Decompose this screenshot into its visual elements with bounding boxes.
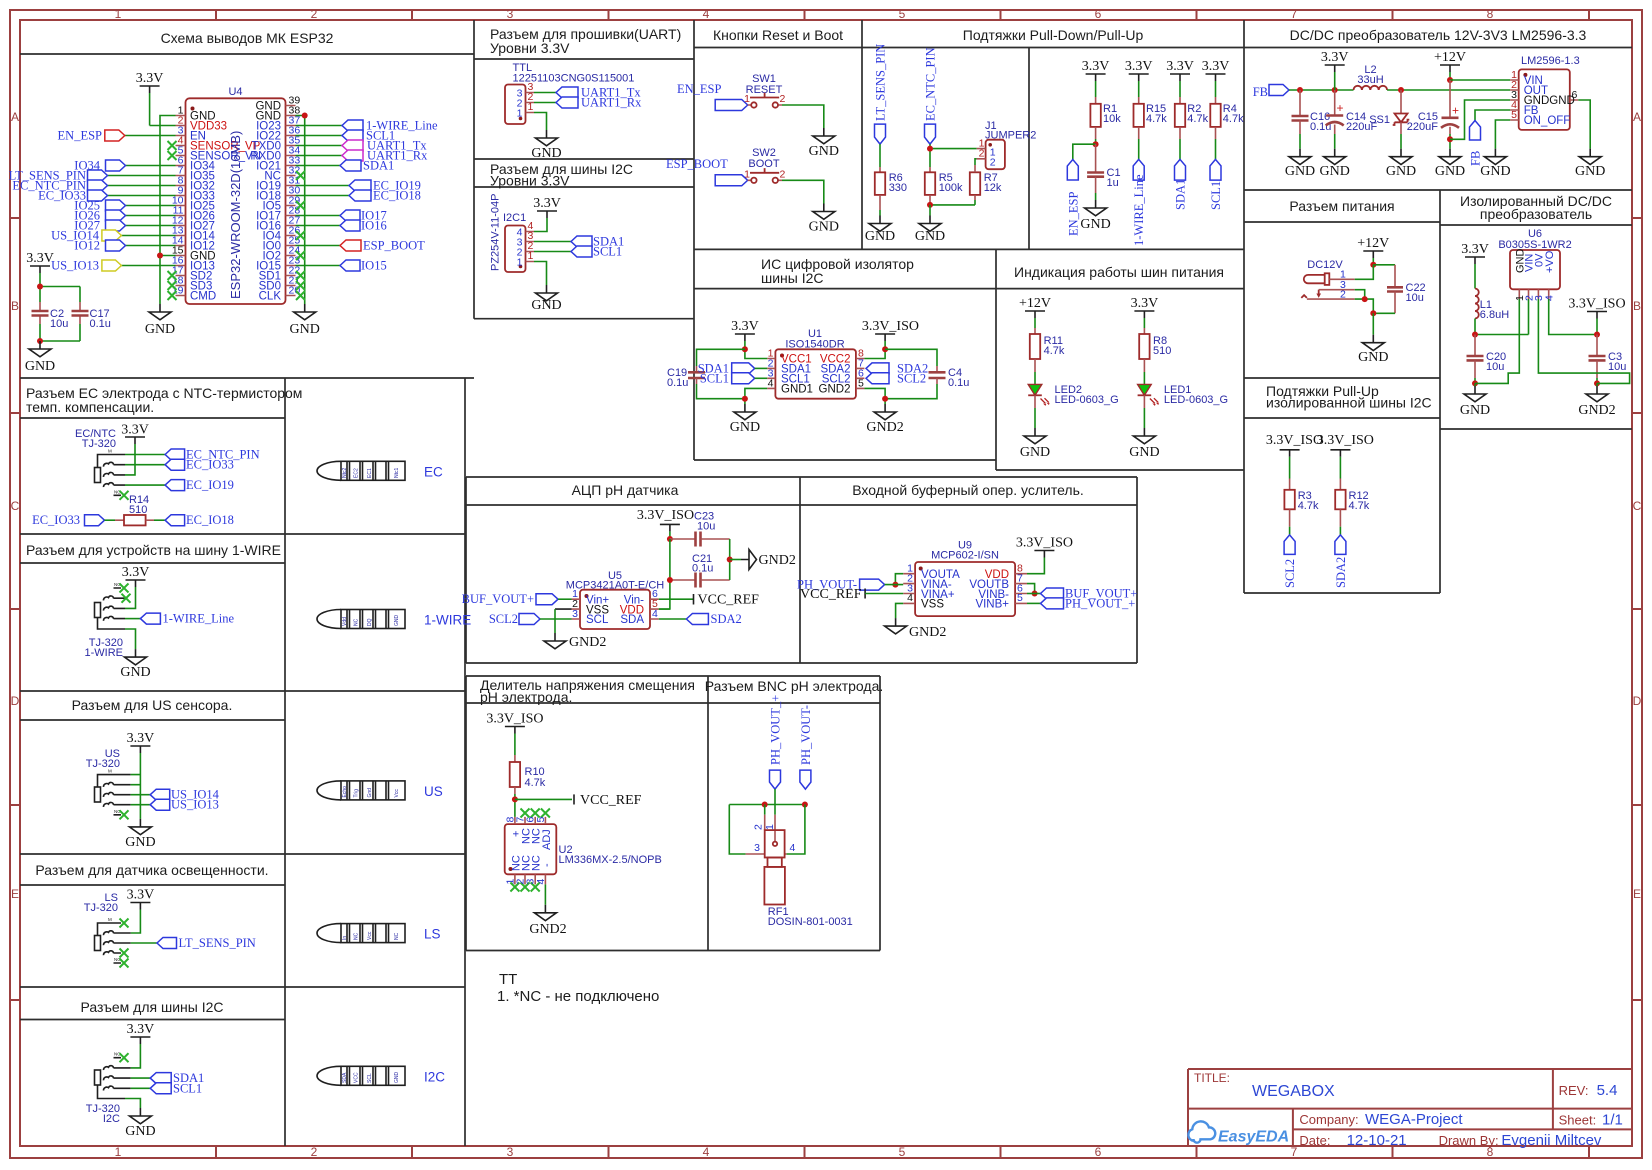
svg-text:SCL2: SCL2 xyxy=(489,612,518,626)
svg-text:ESP32-WROOM-32D(16MB): ESP32-WROOM-32D(16MB) xyxy=(228,131,243,299)
svg-text:DQ: DQ xyxy=(367,618,373,626)
capacitor C15 (polarized) xyxy=(1407,80,1459,149)
svg-text:PZ254V-11-04P: PZ254V-11-04P xyxy=(490,194,502,271)
pin numbers LM2596 xyxy=(1511,69,1577,121)
power flag +12V xyxy=(1434,50,1466,80)
power flag 3.3V (U6 in) xyxy=(1461,242,1489,289)
svg-text:3.3V: 3.3V xyxy=(136,71,164,86)
svg-text:GND: GND xyxy=(1285,164,1315,179)
resistor R3 xyxy=(1284,479,1319,535)
svg-text:IO12: IO12 xyxy=(74,239,100,253)
junction SS1 top xyxy=(1398,87,1404,93)
net flag SDA2 (U1) xyxy=(866,361,928,375)
wire LS row3 to flag xyxy=(131,942,157,944)
svg-text:LM2596-1.3: LM2596-1.3 xyxy=(1521,55,1580,67)
junction C20 bottom xyxy=(1472,380,1478,386)
connector I2C TJ-320 jack xyxy=(95,1052,131,1099)
junction R5 bottom xyxy=(927,202,933,208)
logo EasyEDA cloud xyxy=(1188,1121,1215,1142)
power flag 3.3V_ISO (R3) xyxy=(1266,433,1323,479)
svg-text:PH_VOUT_+: PH_VOUT_+ xyxy=(769,695,783,765)
svg-text:4: 4 xyxy=(907,592,913,604)
svg-text:10u: 10u xyxy=(1608,361,1626,373)
pin names U4 left xyxy=(190,111,261,303)
junction VCC2/C4 xyxy=(882,346,888,352)
svg-text:4.7k: 4.7k xyxy=(1298,500,1319,512)
power flag 3.3V (US) xyxy=(127,731,155,753)
svg-text:Ntc2: Ntc2 xyxy=(342,468,348,479)
net flag PH_VOUT_+ (BNC, vertical) xyxy=(769,695,783,789)
connector DC12V barrel jack xyxy=(1301,259,1354,301)
svg-text:MCP602-I/SN: MCP602-I/SN xyxy=(931,550,999,562)
wire SW2 to GND xyxy=(782,180,824,203)
power flag 3.3V (U1) xyxy=(731,319,759,341)
junction R1/C1/EN_ESP xyxy=(1093,141,1099,147)
svg-text:GND2: GND2 xyxy=(759,553,796,568)
junction C3 bottom xyxy=(1594,380,1600,386)
wire LED2 to GND xyxy=(1034,395,1036,408)
svg-text:GND: GND xyxy=(809,144,839,159)
power flag 3.3V (U4) xyxy=(136,71,164,93)
junction VCC1/C19 xyxy=(742,346,748,352)
pin names I2C1 xyxy=(517,227,523,269)
connector TTL body xyxy=(505,85,526,125)
junction bottom C2 xyxy=(37,338,43,344)
svg-text:+: + xyxy=(1452,104,1459,118)
svg-text:I2C: I2C xyxy=(103,1113,120,1125)
wire pin4 SDA to flag xyxy=(659,618,687,620)
svg-text:DC12V: DC12V xyxy=(1307,259,1343,271)
svg-text:12k: 12k xyxy=(984,182,1002,194)
svg-text:NC: NC xyxy=(354,932,360,940)
net flag IO25 xyxy=(74,199,125,213)
svg-text:GND: GND xyxy=(1435,164,1465,179)
ground GND2 (U9) xyxy=(885,618,947,640)
svg-text:3.3V_ISO: 3.3V_ISO xyxy=(1266,433,1323,448)
svg-text:GND: GND xyxy=(120,665,150,680)
svg-text:LS: LS xyxy=(424,927,441,942)
svg-text:12-10-21: 12-10-21 xyxy=(1347,1132,1407,1149)
net flag PH_VOUT_+ (U9) xyxy=(1041,596,1136,610)
svg-text:A: A xyxy=(1633,110,1641,124)
net flag UART1_Tx xyxy=(556,86,641,100)
wire 3.3V to pin4 xyxy=(534,218,547,232)
wire US row4 to flag xyxy=(131,804,151,806)
svg-text:M: M xyxy=(108,769,112,774)
pin names U5 xyxy=(586,594,644,626)
svg-text:GND: GND xyxy=(1575,164,1605,179)
ground GND (C15) xyxy=(1435,149,1465,179)
svg-text:Date:: Date: xyxy=(1299,1133,1330,1148)
svg-text:2: 2 xyxy=(780,168,786,180)
junction pin2/pin3 xyxy=(1362,296,1368,302)
svg-text:0.1u: 0.1u xyxy=(90,318,111,330)
svg-text:2: 2 xyxy=(780,93,786,105)
pin numbers U9 xyxy=(907,563,1023,605)
connector I2C1 body xyxy=(505,226,526,273)
svg-text:Evgenii Miltcev: Evgenii Miltcev xyxy=(1501,1132,1602,1149)
svg-text:6.8uH: 6.8uH xyxy=(1480,309,1509,321)
wire LT_SENS_PIN to R6 xyxy=(879,144,881,167)
svg-text:Разъем для US сенсора.: Разъем для US сенсора. xyxy=(72,697,233,713)
power flag 3.3V (R4) xyxy=(1202,59,1230,81)
svg-text:1. *NC - не подключено: 1. *NC - не подключено xyxy=(497,988,659,1005)
net flag SDA1 (I2C jack) xyxy=(150,1071,204,1085)
svg-text:1-WIRE: 1-WIRE xyxy=(85,647,124,659)
net flag ESP_BOOT (SW2) xyxy=(666,157,748,186)
svg-text:GND2: GND2 xyxy=(819,384,851,396)
svg-text:Разъем питания: Разъем питания xyxy=(1289,198,1394,214)
ground GND2 (right arrow style) xyxy=(730,550,796,570)
ground GND (jack) xyxy=(1358,335,1388,365)
junction pin38 GND xyxy=(302,113,308,119)
svg-text:EC_IO18: EC_IO18 xyxy=(373,189,421,203)
svg-text:VCC: VCC xyxy=(354,1072,360,1083)
svg-text:A: A xyxy=(11,110,19,124)
net flag SCL1 xyxy=(342,129,395,143)
svg-text:220uF: 220uF xyxy=(1407,121,1438,133)
svg-text:FB: FB xyxy=(1253,85,1268,99)
svg-text:Vcc: Vcc xyxy=(367,931,373,940)
led LED2 xyxy=(1028,384,1119,406)
capacitor C20 xyxy=(1467,335,1507,384)
svg-text:EC_NTC_PIN: EC_NTC_PIN xyxy=(924,47,938,121)
wire 1-WIRE row4 to flag xyxy=(125,618,140,620)
svg-text:US_IO13: US_IO13 xyxy=(51,259,99,273)
wire VSS to GND2 xyxy=(555,608,572,610)
svg-text:C: C xyxy=(11,499,20,513)
wire pin3 to SDA1 xyxy=(534,241,571,243)
power flag 3.3V (EC) xyxy=(121,423,149,445)
ic U2 LM336MX-2.5/NOPB xyxy=(505,817,662,885)
svg-text:Схема выводов МК ESP32: Схема выводов МК ESP32 xyxy=(161,30,334,46)
pin numbers I2C1 xyxy=(528,220,534,262)
capacitor C22 xyxy=(1373,265,1425,314)
power flag 3.3V (LS) xyxy=(127,888,155,910)
ground GND2 (U1) xyxy=(866,404,903,435)
wires right pins to flags xyxy=(296,126,350,266)
svg-text:PH_VOUT-: PH_VOUT- xyxy=(799,705,813,765)
svg-text:GND2: GND2 xyxy=(529,922,566,937)
junction VINA- xyxy=(892,582,898,588)
svg-text:LT_SENS_PIN: LT_SENS_PIN xyxy=(874,44,888,121)
wire 1-WIRE sleeve to GND xyxy=(125,629,136,649)
wire US row3 to flag xyxy=(131,794,151,796)
power flag 3.3V_ISO (R10) xyxy=(486,712,543,756)
junction GND2/C4 xyxy=(882,396,888,402)
junction L1/C20 xyxy=(1472,332,1478,338)
svg-text:0.1u: 0.1u xyxy=(948,377,969,389)
wire 3.3V to LS row2 xyxy=(131,910,141,934)
svg-text:+VO: +VO xyxy=(1544,250,1556,273)
no-connect X (US) xyxy=(120,810,129,819)
resistor R12 xyxy=(1335,479,1370,535)
svg-text:10u: 10u xyxy=(50,318,68,330)
power flag 3.3V (R1) xyxy=(1082,59,1110,81)
net flag SCL2 (vertical) xyxy=(1283,535,1297,588)
ground GND2 (U2) xyxy=(529,905,566,937)
svg-text:33uH: 33uH xyxy=(1357,74,1383,86)
icon LS plug xyxy=(317,924,441,943)
wire bus bar BNC xyxy=(729,804,805,806)
svg-text:GND2: GND2 xyxy=(1578,403,1615,418)
net flag SDA2 (vertical) xyxy=(1334,535,1348,588)
power flag 3.3V (R15) xyxy=(1125,59,1153,81)
net flag IO26 xyxy=(74,209,125,223)
svg-text:3.3V: 3.3V xyxy=(1125,59,1153,74)
wire I2C row3 to flag xyxy=(131,1077,151,1079)
svg-text:U4: U4 xyxy=(228,86,242,98)
wire 3.3V to I2C row2 xyxy=(131,1044,141,1068)
svg-text:TJ-320: TJ-320 xyxy=(84,902,118,914)
svg-text:SDA1: SDA1 xyxy=(363,159,394,173)
net flag EC_NTC_PIN (vertical) xyxy=(924,47,938,144)
ic U5 MCP3421A0T-E/CH xyxy=(566,570,664,629)
ground GND (US) xyxy=(125,819,155,850)
svg-text:Разъем BNC pH электрода.: Разъем BNC pH электрода. xyxy=(705,678,884,694)
wire pin4 VSS to GND2 xyxy=(896,603,904,618)
svg-text:DOSIN-801-0031: DOSIN-801-0031 xyxy=(768,916,853,928)
svg-text:GND: GND xyxy=(809,220,839,235)
svg-text:5: 5 xyxy=(1017,592,1023,604)
net flag EC_IO19 xyxy=(349,179,421,193)
wire C2/C17 bottom to GND xyxy=(40,324,80,341)
junction C14 top xyxy=(1332,87,1338,93)
wire GND2 (U1) xyxy=(864,388,885,404)
net flag FB (vertical) xyxy=(1469,121,1483,167)
svg-text:BUF_VOUT+: BUF_VOUT+ xyxy=(462,592,534,606)
net flag UART1_Tx (magenta) xyxy=(342,139,427,153)
net flag SCL2 (U5) xyxy=(489,612,572,626)
svg-text:B: B xyxy=(11,299,19,313)
svg-text:In: In xyxy=(342,936,348,940)
junction C16 top xyxy=(1297,87,1303,93)
svg-text:4: 4 xyxy=(703,1145,710,1159)
net flag IO34 xyxy=(74,159,125,173)
junction GND1/C19 xyxy=(742,396,748,402)
svg-text:8: 8 xyxy=(1487,7,1494,21)
net flag US_IO14 (US) xyxy=(150,788,219,802)
svg-text:PH_VOUT_+: PH_VOUT_+ xyxy=(1065,596,1135,610)
svg-text:E: E xyxy=(1633,887,1641,901)
svg-text:Vdd: Vdd xyxy=(342,617,348,626)
icon US plug xyxy=(317,781,443,800)
ground GND (I2C1) xyxy=(531,285,561,313)
svg-text:SCL1: SCL1 xyxy=(1209,181,1223,210)
svg-text:NC: NC xyxy=(354,618,360,626)
svg-text:SCL1: SCL1 xyxy=(700,371,729,385)
pin numbers U2 xyxy=(504,817,547,885)
connector 1-WIRE TJ-320 jack xyxy=(95,582,126,629)
connector US TJ-320 jack xyxy=(95,769,131,815)
ground GND2 (U6) xyxy=(1578,386,1615,418)
pin stubs I2C1 xyxy=(526,232,535,262)
net flag SDA1 xyxy=(340,159,394,173)
svg-text:GND: GND xyxy=(125,835,155,850)
svg-text:Ntc1: Ntc1 xyxy=(394,468,400,479)
net flag PH_VOUT- (U9) xyxy=(797,577,903,591)
connector RF1 BNC body xyxy=(764,830,785,904)
svg-text:Разъем для устройств на шину 1: Разъем для устройств на шину 1-WIRE xyxy=(26,542,281,558)
wire L1 to VIN node xyxy=(1475,299,1529,335)
svg-text:US: US xyxy=(424,784,443,799)
svg-text:темп. компенсации.: темп. компенсации. xyxy=(26,399,154,415)
net flag PH_VOUT- (BNC, vertical) xyxy=(799,705,813,789)
svg-text:WEGABOX: WEGABOX xyxy=(1252,1083,1335,1100)
svg-text:7: 7 xyxy=(1291,1145,1298,1159)
svg-text:SCL: SCL xyxy=(586,614,609,626)
wire EN to flag EN_ESP xyxy=(125,135,176,137)
capacitor C1 xyxy=(1087,144,1120,189)
svg-text:Company:: Company: xyxy=(1299,1112,1358,1127)
svg-text:1: 1 xyxy=(528,250,534,262)
no-connect X marks (LS) xyxy=(120,919,129,968)
connector LS TJ-320 jack xyxy=(95,917,131,963)
svg-text:1-WIRE: 1-WIRE xyxy=(424,613,471,628)
net flag US_IO14 (yellow) xyxy=(51,229,121,243)
svg-text:IO15: IO15 xyxy=(361,259,387,273)
pin numbers U1 xyxy=(768,348,864,390)
svg-text:1: 1 xyxy=(744,168,750,180)
svg-text:Echo: Echo xyxy=(342,786,348,798)
ground GND (I2C jack) xyxy=(125,1108,155,1139)
net flag EC_IO18 (R14 output) xyxy=(165,513,234,527)
svg-text:SS1: SS1 xyxy=(1369,114,1390,126)
pin names U1 xyxy=(781,354,851,396)
svg-text:I2C: I2C xyxy=(424,1069,445,1084)
wire pin1 to GND xyxy=(534,113,547,131)
svg-text:АЦП pH датчика: АЦП pH датчика xyxy=(572,482,679,498)
ground GND (LED2) xyxy=(1020,428,1050,460)
net flag EN_ESP (pin3) xyxy=(58,129,125,143)
switch SW1 RESET xyxy=(744,93,785,108)
ground GND (SS1) xyxy=(1386,149,1416,179)
svg-text:SCL1: SCL1 xyxy=(173,1081,202,1095)
title block border xyxy=(1188,1069,1632,1146)
svg-text:330: 330 xyxy=(889,182,907,194)
no-connect X marks (1-WIRE) xyxy=(120,584,131,603)
svg-text:1-WIRE_Line: 1-WIRE_Line xyxy=(163,612,235,626)
svg-text:SDA: SDA xyxy=(342,1072,348,1083)
svg-text:GND: GND xyxy=(25,359,55,374)
svg-text:3.3V: 3.3V xyxy=(1166,59,1194,74)
power flag 3.3V_ISO (U9) xyxy=(1016,536,1073,558)
svg-text:преобразователь: преобразователь xyxy=(1480,206,1592,222)
net flag EC_IO19 (EC) xyxy=(165,478,234,492)
wire U2 pin4 to GND2 xyxy=(544,884,546,904)
svg-text:EC2: EC2 xyxy=(354,468,360,478)
pin names U2 xyxy=(510,828,553,871)
wire 3.3V to 1-WIRE row3 xyxy=(125,587,136,608)
pin names U9 xyxy=(921,569,1009,611)
wire node to EN_ESP flag xyxy=(1073,144,1096,159)
pin numbers U6 xyxy=(1514,295,1555,301)
svg-text:+: + xyxy=(1337,101,1344,115)
svg-text:SDA1: SDA1 xyxy=(1174,179,1188,210)
capacitor C2 xyxy=(32,302,69,330)
net flag IO12 xyxy=(74,239,125,253)
net flag IO27 xyxy=(74,219,125,233)
no-connect X marks U4 xyxy=(168,141,306,300)
capacitor C14 (polarized) xyxy=(1326,90,1378,149)
capacitor C17 xyxy=(72,302,111,330)
net flag SDA2 (U5) xyxy=(686,612,741,626)
svg-text:2: 2 xyxy=(1340,289,1346,301)
svg-text:VINB+: VINB+ xyxy=(975,599,1009,611)
svg-text:3.3V: 3.3V xyxy=(127,731,155,746)
svg-text:Кнопки Reset и Boot: Кнопки Reset и Boot xyxy=(713,27,843,43)
wire jack pin1 to +12V xyxy=(1355,265,1374,280)
svg-text:Разъем для датчика освещенност: Разъем для датчика освещенности. xyxy=(35,862,268,878)
svg-text:VCC_REF: VCC_REF xyxy=(800,587,862,602)
svg-text:-: - xyxy=(541,863,553,867)
svg-text:10u: 10u xyxy=(1486,361,1504,373)
svg-text:10u: 10u xyxy=(697,521,715,533)
wire SW1 to GND xyxy=(782,105,824,128)
svg-text:ON_OFF: ON_OFF xyxy=(1524,115,1571,127)
frame row ticks right xyxy=(1632,218,1642,1000)
frame column ticks bottom xyxy=(216,1146,1589,1158)
svg-text:UART1_Rx: UART1_Rx xyxy=(581,96,642,110)
no-connect X (EC pin NC) xyxy=(120,491,129,500)
svg-text:US_IO13: US_IO13 xyxy=(171,798,219,812)
ic U9 MCP602-I/SN xyxy=(903,540,1027,617)
svg-text:GND: GND xyxy=(145,322,175,337)
net flag ESP_BOOT (red) xyxy=(340,239,425,253)
svg-text:1-WIRE_Line: 1-WIRE_Line xyxy=(1132,174,1146,246)
svg-text:4: 4 xyxy=(703,7,710,21)
wire pin5 to PH_VOUT_+ xyxy=(1027,602,1041,604)
ground GND (1-WIRE) xyxy=(120,649,150,680)
net flag IO17 xyxy=(340,209,387,223)
svg-text:SDA: SDA xyxy=(620,614,644,626)
net flag 1-WIRE_Line (vertical) xyxy=(1132,159,1146,246)
svg-text:VCC_REF: VCC_REF xyxy=(698,593,760,608)
inductor L2 xyxy=(1354,64,1388,90)
svg-text:Drawn By:: Drawn By: xyxy=(1439,1133,1499,1148)
wire I2C sleeve to GND xyxy=(125,1099,140,1109)
svg-text:WEGA-Project: WEGA-Project xyxy=(1365,1111,1463,1128)
net flag US_IO13 (yellow) xyxy=(51,259,121,273)
svg-text:2: 2 xyxy=(753,824,765,830)
svg-text:D: D xyxy=(1633,694,1642,708)
svg-text:GND: GND xyxy=(915,229,945,244)
wire R1 to node xyxy=(1095,127,1097,139)
svg-text:VSS: VSS xyxy=(921,599,944,611)
capacitor C16 xyxy=(1292,90,1332,149)
svg-text:NC: NC xyxy=(394,932,400,940)
svg-text:TJ-320: TJ-320 xyxy=(86,758,120,770)
ic U1 ISO1540DR xyxy=(767,328,864,399)
svg-text:3.3V: 3.3V xyxy=(122,565,150,580)
wire pin8 VDD to power xyxy=(1027,558,1044,574)
net flag IO16 xyxy=(340,219,387,233)
jumper J1 xyxy=(977,120,1037,169)
ground GND (SW2) xyxy=(809,204,839,235)
resistor R10 xyxy=(510,755,546,817)
wire +12V to pin1 VIN xyxy=(1450,79,1510,81)
svg-text:SCL1: SCL1 xyxy=(593,245,622,259)
wire pin3 GND to C15 bottom xyxy=(1450,100,1510,139)
svg-text:GND: GND xyxy=(1129,445,1159,460)
junction EC_NTC node xyxy=(927,146,933,152)
connector EC/NTC TJ-320 jack xyxy=(95,449,126,496)
resistor R14 xyxy=(105,494,166,525)
power flag 3.3V_ISO (U1) xyxy=(862,319,919,341)
svg-text:EC_IO19: EC_IO19 xyxy=(186,478,234,492)
wire pin5 ON_OFF to GND xyxy=(1495,120,1510,149)
power flag 3.3V (I2C1) xyxy=(533,196,561,218)
